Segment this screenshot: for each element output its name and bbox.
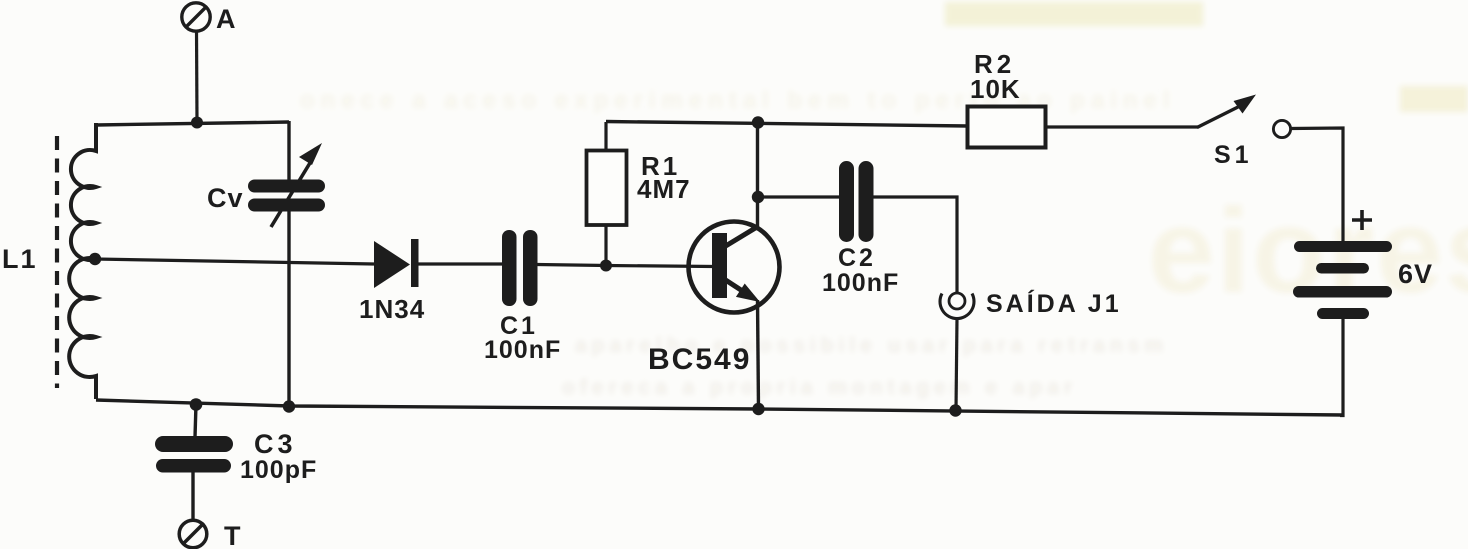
wire C1 to R1 node xyxy=(537,265,607,266)
svg-text:ofereca a propria montagem: ofereca a propria montagem e apar xyxy=(562,376,1077,399)
wire J1 to bottom rail xyxy=(956,318,957,410)
battery plus sign xyxy=(1352,210,1372,230)
transistor Q1 BC549 xyxy=(689,122,780,409)
battery B1 6V xyxy=(1293,241,1392,319)
node emitter junction xyxy=(752,403,764,415)
node coil tap xyxy=(89,253,101,265)
coil L1 xyxy=(69,123,96,399)
svg-text:L1: L1 xyxy=(2,244,38,274)
svg-text:Cv: Cv xyxy=(207,183,244,213)
svg-text:6V: 6V xyxy=(1398,259,1433,289)
node Cv bottom junction xyxy=(283,400,295,412)
svg-text:S1: S1 xyxy=(1214,141,1253,169)
wire top-left rail xyxy=(96,122,289,125)
svg-text:BC549: BC549 xyxy=(648,343,751,376)
terminal T xyxy=(179,520,207,548)
node A junction xyxy=(191,117,203,129)
svg-text:100pF: 100pF xyxy=(240,456,317,484)
svg-text:T: T xyxy=(224,521,241,549)
wire branch to C2 xyxy=(758,195,841,198)
switch S1 xyxy=(1197,95,1291,138)
wire A to top rail xyxy=(195,30,199,122)
node C3 junction xyxy=(190,398,203,411)
jack J1 xyxy=(940,293,974,319)
capacitor C2 xyxy=(839,161,874,242)
svg-text:A: A xyxy=(216,4,236,34)
svg-text:100nF: 100nF xyxy=(484,336,561,364)
capacitor C3 xyxy=(155,404,233,521)
resistor R2 xyxy=(968,107,1046,148)
wire switch to battery xyxy=(1290,128,1343,242)
node R1/base junction xyxy=(600,260,612,272)
wire C2 to J1 xyxy=(873,197,957,292)
wire node to transistor base xyxy=(606,266,714,267)
resistor R1 xyxy=(587,122,627,265)
node C2 branch junction xyxy=(752,191,764,203)
node J1 bottom junction xyxy=(949,404,961,416)
svg-text:100nF: 100nF xyxy=(822,269,899,297)
capacitor C1 xyxy=(502,230,538,306)
svg-text:SAÍDA J1: SAÍDA J1 xyxy=(986,289,1122,318)
wire R2 to switch xyxy=(1046,125,1198,128)
node collector top junction xyxy=(752,116,764,128)
terminal A xyxy=(182,3,210,31)
L1 ferrite core dashed line xyxy=(55,136,59,388)
diode D1 1N34 xyxy=(374,239,419,288)
faint page bleed-through (decorative) xyxy=(300,2,1468,399)
svg-text:C3: C3 xyxy=(254,429,297,459)
wire tap to diode xyxy=(95,259,374,264)
wire battery to bottom rail xyxy=(1340,319,1343,416)
svg-text:1N34: 1N34 xyxy=(359,294,425,324)
wire diode to C1 xyxy=(418,262,503,265)
svg-text:4M7: 4M7 xyxy=(637,174,691,204)
wire bottom rail xyxy=(96,400,1343,415)
wire top mid rail xyxy=(606,122,968,127)
svg-text:C2: C2 xyxy=(838,244,876,272)
capacitor Cv (variable) xyxy=(248,121,325,406)
svg-text:10K: 10K xyxy=(970,74,1021,104)
